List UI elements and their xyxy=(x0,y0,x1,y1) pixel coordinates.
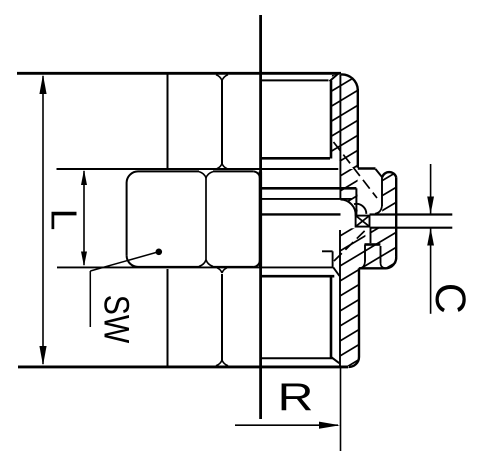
overall dim line xyxy=(42,76,44,364)
pocket left wall xyxy=(364,245,366,262)
SW leader dot xyxy=(156,249,163,256)
sealing ring square xyxy=(356,216,370,227)
female thread minor vertical xyxy=(339,75,341,200)
stub corner bottom xyxy=(387,257,397,269)
svg-text:C: C xyxy=(426,283,474,314)
hex corner arcs bottom band xyxy=(217,268,222,273)
stub bottom face xyxy=(359,267,387,269)
white cover: sealing ring square xyxy=(356,216,370,227)
hex edge bottom band left xyxy=(167,269,169,366)
chamfer bottom right xyxy=(332,357,340,363)
body outer edge bottom xyxy=(358,268,360,357)
tube bottom line xyxy=(370,227,453,229)
thread root bottom xyxy=(262,357,334,359)
C dim line upper xyxy=(430,164,432,214)
body outer corner bottom xyxy=(349,357,360,367)
svg-text:L: L xyxy=(44,209,85,231)
hex facet V arcs middle top xyxy=(199,172,206,178)
hex facet V arcs middle bottom xyxy=(199,260,206,267)
hatching section body top wall xyxy=(300,8,420,455)
R extension line xyxy=(340,368,342,451)
stub right edge xyxy=(395,177,397,256)
overall dim arrows xyxy=(39,75,46,95)
L dim arrows xyxy=(81,170,87,185)
dimensions xyxy=(43,76,431,451)
bore line A xyxy=(262,157,331,160)
SW leader diagonal xyxy=(90,253,156,272)
shoulder line y169 xyxy=(57,168,339,170)
bore step mirror C xyxy=(322,250,333,252)
stub notch chamfer xyxy=(376,169,383,177)
white cover: pipe channel xyxy=(370,216,453,227)
male end face upper xyxy=(330,81,333,159)
bottom crest line xyxy=(18,365,348,368)
svg-text:R: R xyxy=(278,376,314,419)
port inner wall xyxy=(381,177,383,206)
bore line G xyxy=(262,275,335,278)
hidden taper line upper xyxy=(334,142,378,198)
hex corner arcs top band xyxy=(216,75,222,81)
pocket bottom thick xyxy=(365,243,381,246)
body outer corner top xyxy=(341,74,358,90)
C dim arrows xyxy=(427,197,434,215)
bore line E xyxy=(262,213,341,215)
hex end face thick xyxy=(259,172,262,267)
bore line C xyxy=(262,187,357,190)
chamfer top right xyxy=(330,74,338,81)
hex edge bottom band right xyxy=(221,274,223,361)
pocket right wall xyxy=(380,246,382,263)
L dim line xyxy=(83,171,85,265)
hex facet 2 top xyxy=(213,170,253,172)
body outer edge top xyxy=(357,89,359,168)
port seat arc P1 xyxy=(341,200,356,216)
R dim line xyxy=(235,424,338,426)
hex facet 2 bottom xyxy=(213,266,253,268)
hatching section body bottom xyxy=(300,8,420,455)
tube top line xyxy=(370,213,453,215)
port runout arc right xyxy=(375,206,382,214)
thread root top xyxy=(262,79,329,81)
hatching section body mid xyxy=(300,8,420,455)
insert below pipe left xyxy=(370,228,372,243)
male end face lower xyxy=(330,278,333,358)
bore step vertical mirror xyxy=(332,251,334,267)
hidden taper line lower xyxy=(334,230,366,262)
seat wall vertical xyxy=(355,188,357,216)
hex facet 1 outline xyxy=(127,171,199,255)
pocket right corner xyxy=(381,263,386,268)
R dim arrow xyxy=(319,422,340,429)
SW leader vertical xyxy=(89,271,91,327)
top crest line xyxy=(17,72,341,75)
hex facet edge middle xyxy=(205,178,207,260)
stub corner dome arc xyxy=(382,172,396,177)
port seat arc A1 xyxy=(354,204,366,214)
white cover: lower slot xyxy=(365,229,369,244)
sealing ring X xyxy=(356,216,370,227)
bore line D xyxy=(262,198,352,200)
C dim line lower xyxy=(430,229,432,314)
chamfer F xyxy=(333,267,339,276)
stub top face xyxy=(358,167,376,169)
pocket left corner xyxy=(360,262,366,269)
shoulder line F xyxy=(57,266,333,268)
hex edge top band right xyxy=(221,79,223,165)
arrowheads xyxy=(39,75,434,429)
centerline vertical xyxy=(259,15,262,217)
hex edge top band left xyxy=(167,75,169,169)
bore vertical lower xyxy=(339,230,341,366)
svg-text:SW: SW xyxy=(96,295,135,344)
